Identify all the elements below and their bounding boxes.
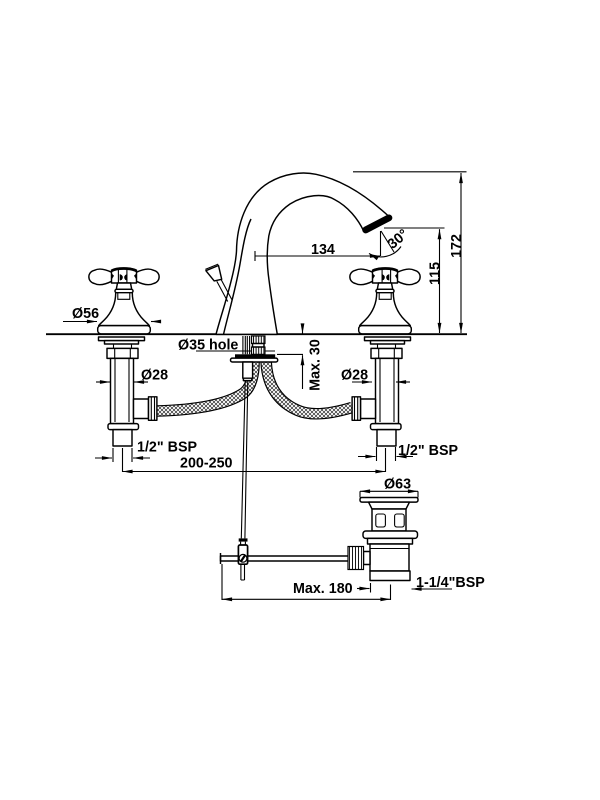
- svg-text:1/2" BSP: 1/2" BSP: [137, 440, 197, 456]
- svg-text:172: 172: [449, 234, 465, 258]
- svg-text:Ø28: Ø28: [141, 368, 168, 384]
- rod left end cap: [220, 553, 222, 564]
- threaded stud below: [243, 362, 253, 378]
- drain band: [368, 538, 413, 544]
- threaded shank upper: [252, 336, 266, 354]
- clevis screw pivot: [239, 554, 247, 562]
- black locking flange: [235, 354, 275, 358]
- right braided hose: [266, 363, 352, 414]
- pop-up lift rod knob: [206, 266, 222, 281]
- overflow hole right: [395, 514, 405, 527]
- drain tailpiece 1-1/4 BSP: [370, 571, 410, 581]
- white washer flange: [231, 358, 278, 362]
- horizontal pop-up lever rod: [221, 556, 352, 561]
- pop-up rod above flange: [243, 336, 250, 354]
- dimension 172 extension line (top): [353, 171, 467, 173]
- drain mid flange: [363, 531, 418, 538]
- dimension 115 vertical line: [439, 229, 441, 333]
- svg-text:Max. 30: Max. 30: [308, 339, 324, 391]
- spout outlet face: [361, 213, 393, 234]
- left braided hose: [157, 363, 254, 412]
- 30 degree slant line: [381, 231, 394, 252]
- svg-text:134: 134: [311, 242, 335, 258]
- left handle and valve: [89, 268, 159, 446]
- svg-text:200-250: 200-250: [180, 456, 233, 472]
- knurled ball nut: [348, 547, 364, 570]
- right handle and valve (mirrored): [350, 268, 420, 446]
- spout body and gooseneck: [216, 173, 390, 334]
- svg-text:Max. 180: Max. 180: [293, 581, 353, 597]
- pop-up rod below: [241, 381, 248, 539]
- spout rear inner line: [224, 219, 252, 334]
- overflow hole left: [376, 514, 386, 527]
- lift rod: [217, 280, 232, 302]
- svg-text:Ø63: Ø63: [384, 477, 411, 493]
- 30 degree reference vertical: [380, 231, 382, 256]
- centre threaded shank leader occluder: [231, 336, 278, 381]
- Ø35 hole leader line: [196, 350, 275, 352]
- dimension 172 vertical line: [460, 173, 462, 333]
- drain lower body: [370, 544, 409, 571]
- Max. 30 dimension: [277, 353, 303, 355]
- waste drain flange: [360, 498, 418, 503]
- ball joint neck: [364, 552, 371, 565]
- deck / counter line: [46, 333, 467, 335]
- 30 degree arc with arrow: [369, 247, 401, 257]
- svg-text:Ø28: Ø28: [341, 368, 368, 384]
- svg-text:Ø56: Ø56: [72, 306, 99, 322]
- svg-text:Ø35 hole: Ø35 hole: [178, 338, 238, 354]
- drain neck taper: [369, 502, 410, 509]
- pop-up clevis block: [238, 545, 247, 564]
- 1/2 BSP right arrows: [376, 447, 378, 461]
- rod lower stub: [241, 564, 245, 580]
- svg-text:115: 115: [428, 262, 444, 285]
- 1/2 BSP left arrows: [112, 448, 114, 462]
- pop-up rod ferrule: [239, 538, 248, 541]
- dimension 134 line: [254, 251, 256, 261]
- drain upper body with overflow holes: [372, 509, 406, 531]
- dimension 115 extension line: [384, 227, 445, 229]
